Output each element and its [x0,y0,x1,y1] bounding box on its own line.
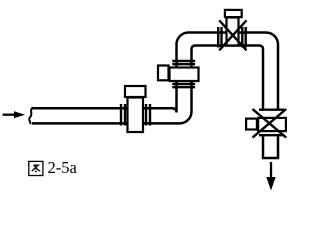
svg-text:2-5a: 2-5a [48,158,78,177]
